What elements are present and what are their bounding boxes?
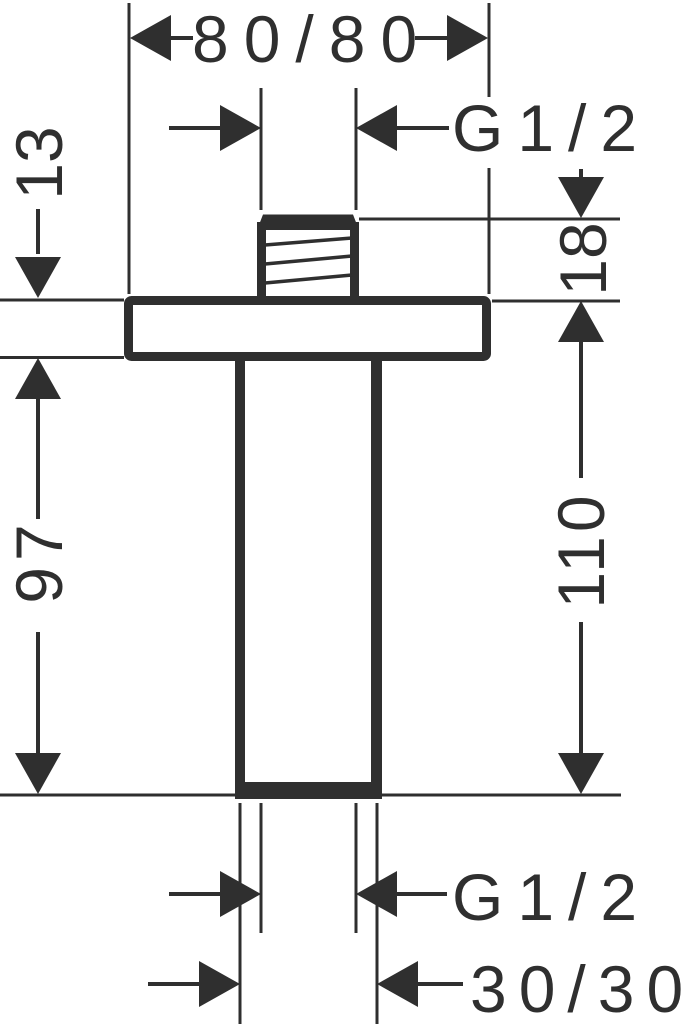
svg-text:G1/2: G1/2: [452, 860, 651, 934]
wire ext line left of 80/80: [128, 3, 131, 294]
wire 30/30 stub right: [416, 982, 463, 986]
wire thread ext line right: [355, 88, 358, 210]
wire 18-110 dim line upper: [579, 341, 583, 478]
wire bottom ext outer right: [376, 803, 379, 1024]
svg-text:18: 18: [546, 222, 620, 295]
wire pipe bottom line full: [0, 794, 621, 797]
wire G1/2 top stub right: [396, 126, 449, 130]
wire bottom ext inner left: [260, 803, 263, 933]
wire 97 dim line lower: [36, 632, 40, 754]
arrow 80/80 left: [130, 15, 171, 61]
thread block top band: [257, 215, 359, 231]
thread block left wall: [257, 222, 266, 300]
wire 30/30 stub left: [148, 982, 202, 986]
svg-text:13: 13: [2, 126, 76, 199]
arrow 110 down: [558, 753, 604, 794]
arrow 18 down: [558, 177, 604, 218]
arrow 97 down: [15, 753, 61, 794]
pipe right wall: [371, 358, 382, 798]
arrow G1/2 top left (points right): [220, 105, 261, 151]
svg-text:97: 97: [2, 518, 76, 603]
arrow G1/2 bottom right (points left): [356, 871, 397, 917]
flange plate: [129, 301, 487, 357]
arrow G1/2 bottom left (points right): [220, 871, 261, 917]
wire ext line right of 80/80 upper: [488, 3, 491, 97]
wire ext line right of 80/80 lower: [488, 168, 491, 294]
wire 80/80 dim stub right: [415, 36, 449, 40]
wire thread top ext right: [359, 218, 620, 221]
arrow G1/2 top right (points left): [356, 105, 397, 151]
pipe bottom bar: [235, 782, 382, 799]
wire 80/80 dim stub left: [170, 36, 193, 40]
svg-text:80/80: 80/80: [192, 2, 432, 76]
svg-text:30/30: 30/30: [470, 952, 688, 1024]
wire bottom ext outer left: [239, 803, 242, 1024]
wire G1/2 top stub left: [169, 126, 221, 130]
wire thread ext line left: [260, 88, 263, 210]
thread hatch line 1: [265, 238, 352, 245]
svg-text:110: 110: [544, 491, 618, 608]
pipe left wall: [235, 358, 245, 798]
thread hatch line 3: [265, 275, 352, 283]
thread hatch line 2: [265, 256, 352, 264]
wire 110 dim line lower: [579, 622, 583, 754]
arrow 18/110 up: [558, 301, 604, 342]
arrow 13 down: [15, 257, 61, 298]
wire flange bottom line left: [0, 356, 124, 359]
wire flange top line left: [0, 299, 124, 302]
arrow 30/30 left (points right): [199, 961, 240, 1007]
wire G1/2 bottom stub left: [169, 892, 222, 896]
wire flange top ext right: [492, 300, 620, 303]
svg-text:G1/2: G1/2: [452, 91, 651, 165]
arrow 30/30 right (points left): [377, 961, 418, 1007]
wire bottom ext inner right: [355, 803, 358, 933]
wire 13 dim stub: [36, 209, 40, 254]
arrow 80/80 right: [447, 15, 488, 61]
wire 18 stub top: [579, 169, 583, 180]
wire 97 dim line upper: [36, 399, 40, 519]
thread block right wall: [350, 222, 359, 300]
arrow 97 up: [15, 358, 61, 399]
wire G1/2 bottom stub right: [395, 892, 447, 896]
